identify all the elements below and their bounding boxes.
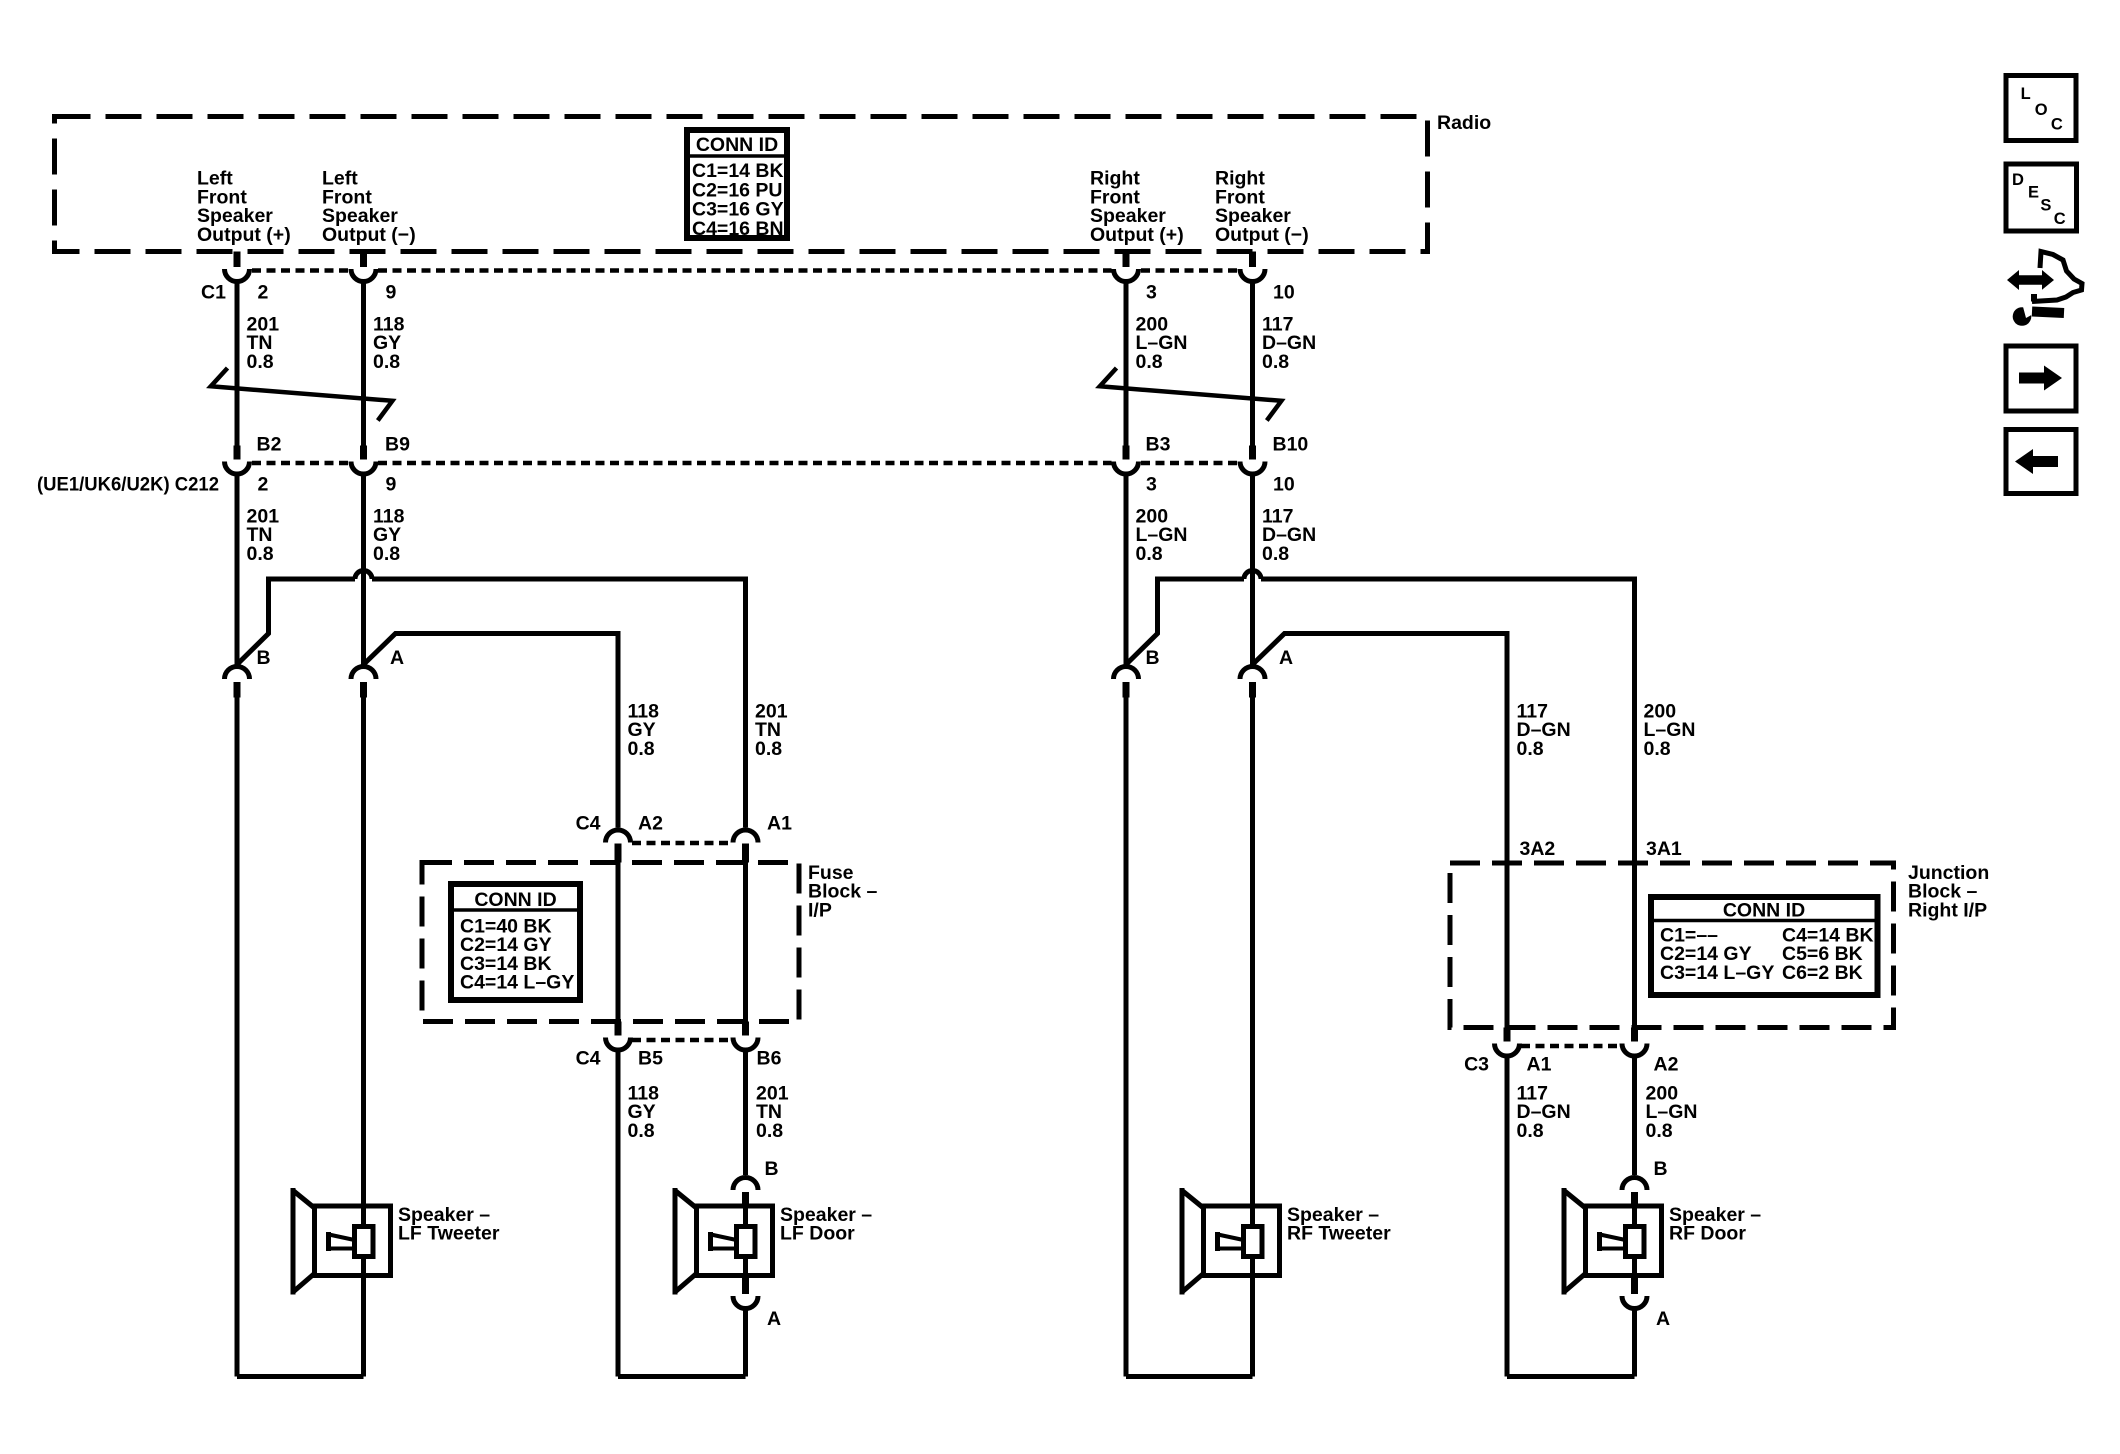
svg-text:0.8: 0.8	[628, 738, 655, 760]
svg-text:B: B	[1654, 1158, 1668, 1180]
junction block CONN ID table	[1651, 897, 1878, 995]
svg-text:0.8: 0.8	[1262, 351, 1289, 373]
junction bottom dotted connector line	[1521, 1044, 1621, 1049]
svg-text:0.8: 0.8	[373, 543, 400, 565]
speaker RF Door pin A connector (stub and cup)	[1631, 1276, 1638, 1295]
svg-text:0.8: 0.8	[1262, 543, 1289, 565]
svg-text:B6: B6	[757, 1048, 782, 1070]
fuse block top pin C4-A2 (dome and stub)	[606, 830, 631, 843]
svg-text:0.8: 0.8	[1644, 738, 1671, 760]
connector C212 pin 3 (stub and cup)	[1123, 446, 1130, 460]
svg-text:C: C	[2054, 210, 2066, 228]
svg-text:0.8: 0.8	[1517, 738, 1544, 760]
connector B right (dome and stub)	[1114, 667, 1139, 680]
connector C212 dotted harness line	[252, 461, 349, 466]
speaker RF Tweeter symbol	[1182, 1188, 1280, 1295]
wire 118 GY inside fuse block	[616, 863, 621, 1022]
svg-text:3A1: 3A1	[1646, 838, 1682, 860]
svg-text:Right I/P: Right I/P	[1908, 899, 1987, 921]
speaker LF Door pin A connector (stub and cup)	[742, 1276, 749, 1295]
connector C1 pin 3 (stub and cup)	[1123, 252, 1130, 268]
return wire LF tweeter circuit	[237, 1374, 364, 1379]
svg-text:D: D	[2012, 171, 2024, 189]
svg-text:CONN ID: CONN ID	[474, 889, 556, 911]
svg-text:3: 3	[1146, 282, 1157, 304]
svg-text:I/P: I/P	[808, 899, 832, 921]
wire 117 D-GN connector A down through RF tweeter	[1250, 698, 1255, 1377]
svg-text:CONN ID: CONN ID	[1723, 900, 1805, 922]
svg-text:3A2: 3A2	[1520, 838, 1556, 860]
wire 200 L-GN from C212 to connector B	[1124, 474, 1129, 665]
svg-text:2: 2	[258, 474, 269, 496]
svg-text:Output (−): Output (−)	[1215, 224, 1309, 246]
wire 118 GY connector A down through LF tweeter	[361, 698, 366, 1377]
wire 201 TN connector B down to LF tweeter circuit	[235, 698, 240, 1377]
svg-text:C3=14 L–GY: C3=14 L–GY	[1660, 962, 1774, 984]
fuse block CONN ID table	[451, 884, 580, 1000]
svg-text:O: O	[2035, 101, 2048, 119]
wire 200 L-GN from C1-3 to C212	[1124, 282, 1129, 446]
svg-text:0.8: 0.8	[1517, 1120, 1544, 1142]
svg-text:A1: A1	[767, 813, 792, 835]
wire 118 GY from C212 to connector A	[361, 474, 366, 665]
svg-text:B10: B10	[1273, 434, 1309, 456]
svg-text:A: A	[1656, 1308, 1670, 1330]
svg-text:10: 10	[1273, 474, 1295, 496]
svg-text:Radio: Radio	[1437, 112, 1491, 134]
junction block bottom pin A2 (stub and cup)	[1631, 1028, 1638, 1042]
next-page right arrow icon box	[2006, 346, 2076, 411]
svg-text:B2: B2	[257, 434, 282, 456]
wire 201 TN from fuse B6 to LF door speaker B	[743, 1050, 748, 1175]
svg-text:0.8: 0.8	[1136, 543, 1163, 565]
fuse block bottom pin C4-B5 (stub and cup)	[615, 1022, 622, 1036]
svg-text:3: 3	[1146, 474, 1157, 496]
speaker RF Door symbol	[1564, 1188, 1662, 1295]
branch wire 200 L-GN continues into junction block 3A1	[1261, 579, 1635, 1028]
LOC icon box	[2006, 76, 2076, 141]
connector row C1 dotted harness line	[252, 268, 349, 273]
svg-text:C: C	[2051, 115, 2063, 133]
junction block bottom pin C3-A1 (stub and cup)	[1504, 1028, 1511, 1042]
fuse block top pin A1 (dome and stub)	[733, 830, 758, 843]
wire 201 TN from C1-2 to C212	[235, 282, 240, 446]
svg-text:9: 9	[386, 474, 397, 496]
wire through speaker LF Door	[743, 1204, 748, 1278]
svg-text:RF Door: RF Door	[1669, 1223, 1746, 1245]
svg-text:0.8: 0.8	[756, 1120, 783, 1142]
fuse bottom dotted connector line	[632, 1038, 732, 1043]
wire 118 GY from C1-9 to C212	[361, 282, 366, 446]
connector A right (dome and stub)	[1240, 667, 1265, 680]
svg-text:A: A	[390, 647, 404, 669]
wire through speaker RF Door	[1632, 1204, 1637, 1278]
branch wire 118 GY from connector A to fuse block pin C4-A2	[364, 634, 619, 828]
svg-text:B: B	[765, 1158, 779, 1180]
connector C212 pin 2 (stub and cup)	[234, 446, 241, 460]
speaker LF Door symbol	[675, 1188, 773, 1295]
branch wire 201 TN from connector B to fuse block A1	[237, 579, 355, 665]
svg-text:RF Tweeter: RF Tweeter	[1287, 1223, 1391, 1245]
wire 201 TN from C212 to connector B	[235, 474, 240, 665]
previous-page left arrow icon box	[2006, 430, 2076, 494]
DESC icon box	[2006, 164, 2077, 231]
svg-text:(UE1/UK6/U2K) C212: (UE1/UK6/U2K) C212	[37, 474, 219, 496]
svg-text:LF Tweeter: LF Tweeter	[398, 1223, 500, 1245]
svg-text:0.8: 0.8	[373, 351, 400, 373]
return wire RF tweeter circuit	[1126, 1374, 1253, 1379]
svg-text:B5: B5	[638, 1048, 663, 1070]
speaker LF Door pin B connector (dome and stub)	[733, 1178, 758, 1191]
svg-text:A2: A2	[638, 813, 663, 835]
harness break symbol left	[211, 368, 393, 421]
svg-text:C4: C4	[576, 1048, 601, 1070]
svg-text:C3: C3	[1464, 1054, 1489, 1076]
svg-text:C1: C1	[201, 282, 226, 304]
svg-text:C4=14 L–GY: C4=14 L–GY	[460, 972, 574, 994]
svg-text:L: L	[2021, 85, 2031, 103]
wire from speaker LF Door pin A to return	[743, 1309, 748, 1377]
svg-text:9: 9	[386, 282, 397, 304]
wire 117 D-GN from C1-10 to C212	[1250, 282, 1255, 446]
svg-text:B9: B9	[385, 434, 410, 456]
svg-text:0.8: 0.8	[247, 351, 274, 373]
svg-text:CONN ID: CONN ID	[696, 134, 778, 156]
svg-text:S: S	[2040, 197, 2051, 215]
speaker RF Door pin B connector (dome and stub)	[1622, 1178, 1647, 1191]
svg-text:C6=2 BK: C6=2 BK	[1782, 962, 1863, 984]
swap-parts sketch icon	[2007, 252, 2082, 326]
fuse top dotted connector line	[632, 841, 732, 846]
wire 117 D-GN from junction A1 down to RF door return	[1505, 1056, 1510, 1377]
svg-text:LF Door: LF Door	[780, 1223, 855, 1245]
svg-text:Output (+): Output (+)	[197, 224, 291, 246]
svg-text:C4=16 BN: C4=16 BN	[692, 218, 784, 240]
wire 200 L-GN connector B down to RF tweeter circuit	[1124, 698, 1129, 1377]
connector C1 pin 9 (stub and cup)	[360, 252, 367, 268]
radio CONN ID table	[687, 130, 787, 238]
svg-text:B: B	[1146, 647, 1160, 669]
harness break symbol right	[1100, 368, 1282, 421]
branch wire 200 L-GN from connector B to junction block 3A1	[1126, 579, 1244, 665]
return wire LF door circuit	[618, 1374, 746, 1379]
connector C1 pin 2 (stub and cup)	[234, 252, 241, 268]
Junction Block - Right I/P dashed box	[1450, 863, 1894, 1028]
svg-text:0.8: 0.8	[628, 1120, 655, 1142]
svg-text:Output (−): Output (−)	[322, 224, 416, 246]
fuse block bottom pin B6 (stub and cup)	[742, 1022, 749, 1036]
wire from speaker RF Door pin A to return	[1632, 1309, 1637, 1377]
svg-text:0.8: 0.8	[1646, 1120, 1673, 1142]
svg-text:E: E	[2028, 184, 2039, 202]
svg-text:A1: A1	[1527, 1054, 1552, 1076]
svg-text:0.8: 0.8	[247, 543, 274, 565]
svg-text:0.8: 0.8	[755, 738, 782, 760]
svg-text:B3: B3	[1146, 434, 1171, 456]
return wire RF door circuit	[1507, 1374, 1635, 1379]
wire 117 D-GN from C212 to connector A	[1250, 474, 1255, 665]
branch wire 201 TN continues to fuse block pin A1	[372, 579, 746, 828]
svg-text:B: B	[257, 647, 271, 669]
wire hop over 118 GY wire	[355, 571, 372, 580]
svg-text:C4: C4	[576, 813, 601, 835]
Radio component dashed box	[55, 117, 1428, 252]
Fuse Block - I/P dashed box	[422, 863, 799, 1022]
svg-text:Output (+): Output (+)	[1090, 224, 1184, 246]
wire hop over 117 D-GN wire	[1244, 571, 1261, 580]
svg-text:A: A	[1279, 647, 1293, 669]
connector C1 pin 10 (stub and cup)	[1249, 252, 1256, 268]
branch wire 117 D-GN from connector A to junction block 3A2	[1253, 634, 1508, 1028]
speaker LF Tweeter symbol	[293, 1188, 391, 1295]
connector A left (dome and stub)	[351, 667, 376, 680]
connector B left (dome and stub)	[225, 667, 250, 680]
svg-text:A: A	[767, 1308, 781, 1330]
wire 201 TN inside fuse block	[743, 863, 748, 1022]
wire 118 GY from fuse B5 down to LF door return	[616, 1050, 621, 1377]
svg-text:10: 10	[1273, 282, 1295, 304]
connector C212 pin 10 (stub and cup)	[1249, 446, 1256, 460]
svg-text:A2: A2	[1654, 1054, 1679, 1076]
svg-text:2: 2	[258, 282, 269, 304]
wire 200 L-GN from junction A2 to RF door speaker B	[1632, 1056, 1637, 1175]
connector C212 pin 9 (stub and cup)	[360, 446, 367, 460]
svg-text:0.8: 0.8	[1136, 351, 1163, 373]
